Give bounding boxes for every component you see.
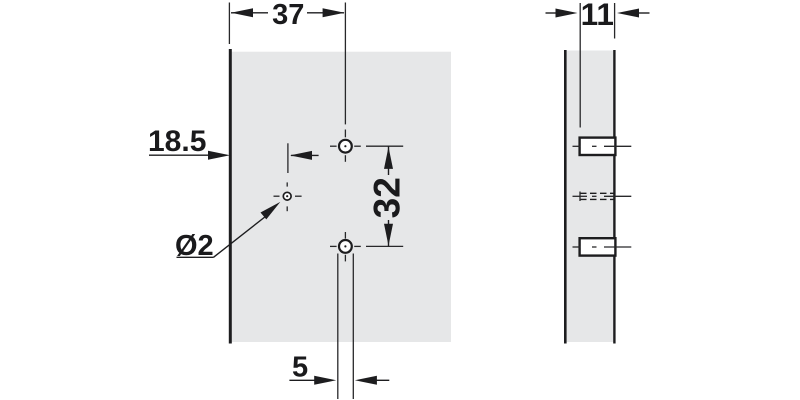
dim 37 right arrowhead	[323, 8, 345, 17]
svg-text:5: 5	[292, 351, 308, 383]
dim 37 right extension / hole centerline	[344, 3, 346, 125]
bottom slot	[580, 238, 616, 255]
label 18.5 arrowhead	[208, 151, 230, 160]
middle hidden hole center line dash-dot	[573, 192, 632, 202]
svg-text:32: 32	[367, 177, 408, 218]
bottom hole	[339, 240, 352, 253]
top hole	[339, 140, 352, 153]
dim 11 right arrowhead	[617, 9, 639, 18]
reference extension line above small hole	[287, 143, 289, 173]
O2 leader diagonal	[214, 215, 269, 258]
svg-text:18.5: 18.5	[148, 125, 206, 158]
dim 5 dimension line right	[377, 379, 390, 381]
top hole center cross ticks	[330, 130, 361, 162]
dim 11 left extension line	[579, 3, 581, 128]
top slot center line dash-dot	[573, 145, 632, 147]
side plate left edge	[564, 50, 567, 344]
dim 32 top extension line	[366, 145, 403, 147]
dim 5 right tangent extension line	[352, 254, 354, 400]
side plate right edge	[613, 50, 615, 344]
label 18.5 leader line	[149, 154, 209, 156]
top slot	[580, 138, 616, 155]
reference arrow pointing left at small hole centerline	[291, 154, 319, 156]
bottom hole center cross ticks	[330, 232, 361, 261]
small hole O2	[283, 192, 291, 200]
side plate body	[566, 51, 615, 343]
front plate body	[231, 52, 452, 342]
O2 leader underline	[177, 256, 214, 258]
O2 leader arrowhead	[261, 202, 281, 220]
dim 11 left arrowhead	[556, 9, 578, 18]
dim 11 right tail line	[639, 12, 650, 14]
dim 32 dimension line	[388, 146, 390, 175]
dim 11 right extension line	[614, 3, 616, 39]
dim 32 bottom extension line	[366, 245, 403, 247]
dim 5 dimension line left	[289, 379, 315, 381]
dim 5 right arrowhead	[355, 376, 377, 385]
dim 32 up arrowhead	[384, 147, 393, 169]
dim 5 left arrowhead	[314, 376, 336, 385]
bottom slot center line dash-dot	[573, 246, 632, 248]
middle hidden hole dashed outline	[580, 193, 615, 199]
small hole O2 center cross dash-dot	[274, 182, 302, 211]
dim 5 left tangent extension line	[337, 254, 339, 400]
dim 11 left tail line	[546, 12, 558, 14]
dim 37 left arrowhead	[231, 8, 253, 17]
dim 37 left extension line	[228, 3, 230, 45]
svg-text:37: 37	[272, 0, 304, 31]
dim 37 dimension line	[231, 12, 268, 14]
dim 32 down arrowhead	[384, 224, 393, 246]
svg-text:11: 11	[581, 0, 614, 32]
front plate left edge	[229, 49, 232, 344]
